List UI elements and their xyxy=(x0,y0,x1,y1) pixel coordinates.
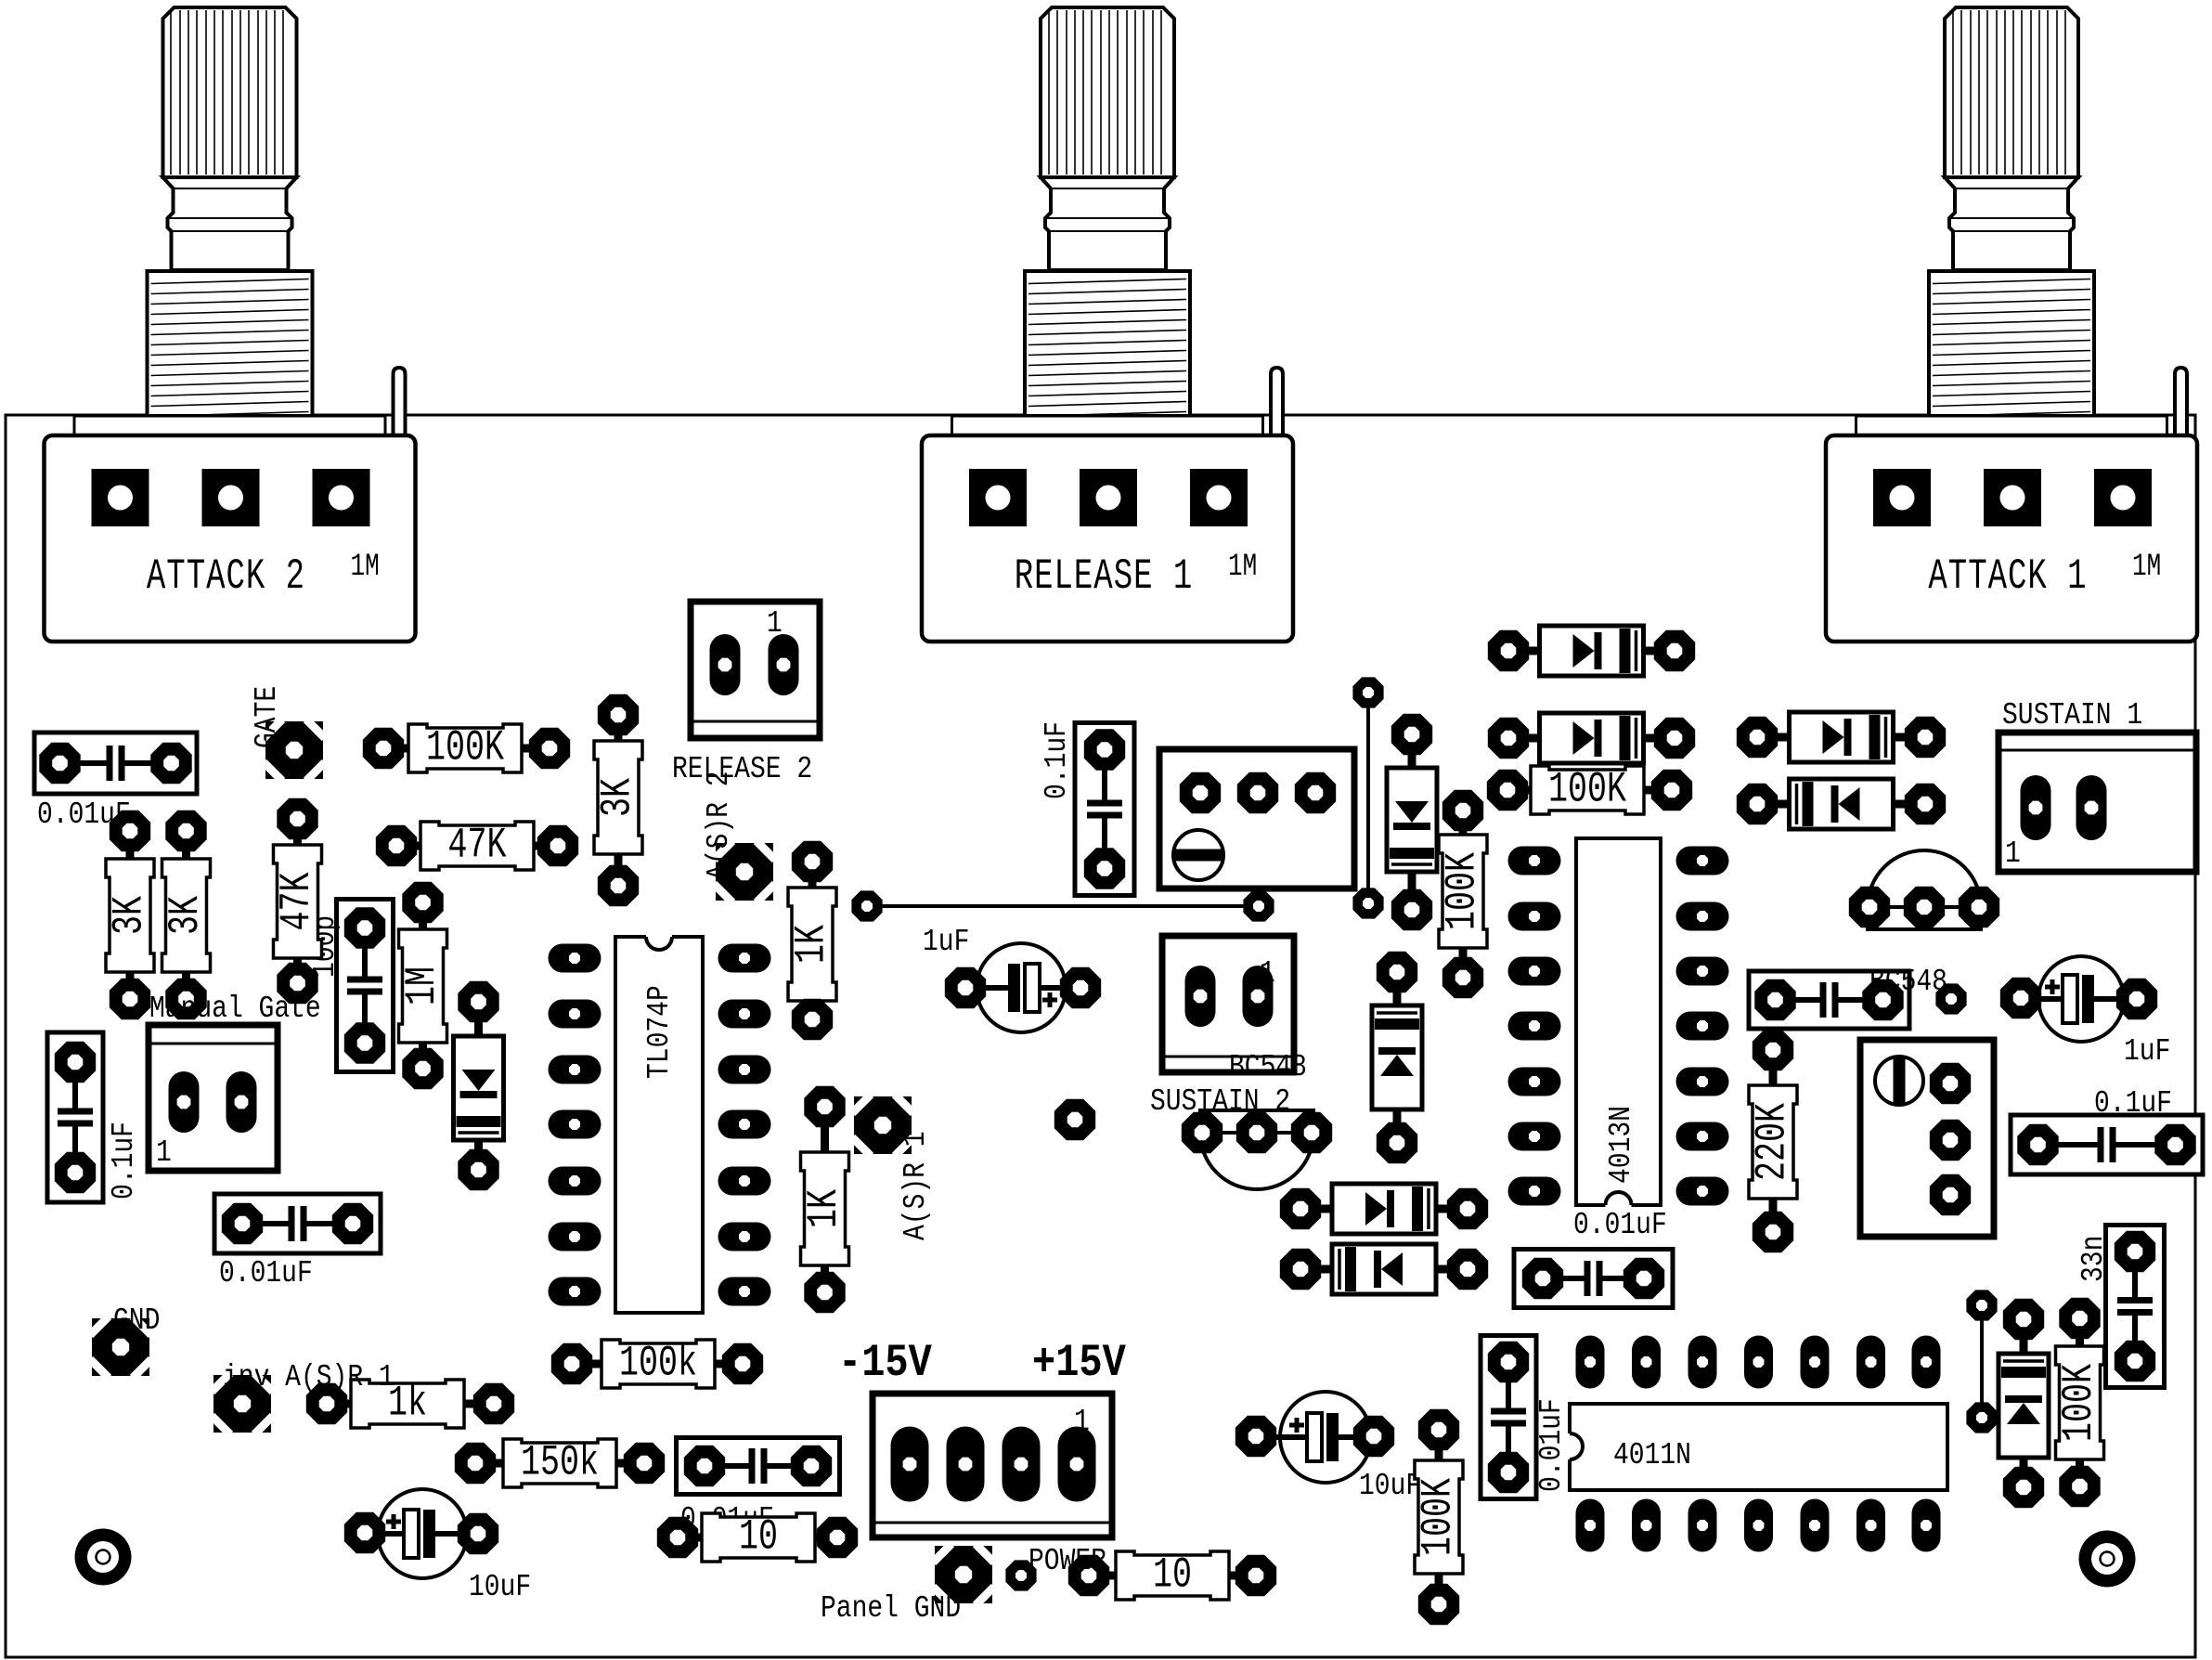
svg-text:1: 1 xyxy=(2005,836,2021,872)
resistor R12 (3K) xyxy=(594,694,642,906)
connector Manual Gate xyxy=(149,1025,278,1171)
diode D6 xyxy=(1301,1244,1467,1294)
svg-text:BC548: BC548 xyxy=(1229,1050,1307,1085)
svg-text:1uF: 1uF xyxy=(923,925,969,960)
svg-text:3K: 3K xyxy=(106,896,154,935)
trimmer potentiometer T1 xyxy=(1159,749,1354,888)
resistor R11 (47K) xyxy=(274,798,322,1004)
svg-text:1: 1 xyxy=(156,1135,172,1171)
diode D5 xyxy=(1301,1184,1467,1234)
resistor R14 (1K) xyxy=(788,841,836,1040)
connector SUSTAIN 2 xyxy=(1162,936,1294,1072)
svg-text:inv A(S)R 1: inv A(S)R 1 xyxy=(223,1360,395,1395)
diode D7 xyxy=(454,1005,504,1171)
svg-text:ATTACK 2: ATTACK 2 xyxy=(147,552,305,601)
svg-text:0.01uF: 0.01uF xyxy=(1534,1398,1570,1492)
capacitor C8 100p xyxy=(337,900,394,1072)
wire W2 xyxy=(1366,693,1370,903)
resistor R3 (100k) xyxy=(551,1340,763,1388)
svg-text:ATTACK 1: ATTACK 1 xyxy=(1928,552,2087,601)
svg-text:220K: 220K xyxy=(1749,1103,1797,1181)
svg-text:100K: 100K xyxy=(1415,1478,1463,1556)
resistor R13 (1M) xyxy=(399,882,447,1089)
capacitor C12 1uF (electrolytic) xyxy=(965,943,1077,1032)
svg-text:1M: 1M xyxy=(2132,550,2161,585)
resistor R10 (3K) xyxy=(162,811,211,1019)
op-amp U1 TL074P xyxy=(549,934,771,1313)
resistor R19 (100K) xyxy=(2056,1298,2104,1507)
svg-text:GATE: GATE xyxy=(250,686,285,748)
potentiometer ATTACK 1 (1M) xyxy=(1826,7,2197,642)
svg-text:TL074P: TL074P xyxy=(642,985,678,1079)
svg-text:100K: 100K xyxy=(426,724,504,772)
capacitor C4 0.01uF xyxy=(1514,1250,1673,1308)
diode D8 xyxy=(1387,737,1437,902)
resistor R7 (10) xyxy=(1068,1551,1276,1600)
transistor Q2 (BC548) xyxy=(1200,1110,1313,1189)
svg-text:100K: 100K xyxy=(1439,852,1487,930)
capacitor C9 0.1uF xyxy=(1075,723,1134,896)
svg-text:RELEASE 1: RELEASE 1 xyxy=(1015,552,1194,601)
svg-text:Panel GND: Panel GND xyxy=(821,1591,961,1627)
svg-text:0.1uF: 0.1uF xyxy=(2094,1086,2172,1122)
resistor R1 (100K) xyxy=(363,724,570,772)
capacitor C3 0.01uF xyxy=(677,1438,840,1495)
svg-text:0.01uF: 0.01uF xyxy=(219,1256,313,1291)
pad A(S)R 2 xyxy=(716,843,773,901)
capacitor C14 10uF (electrolytic) xyxy=(367,1489,478,1578)
potentiometer ATTACK 2 (1M) xyxy=(45,7,416,642)
svg-text:1uF: 1uF xyxy=(2124,1034,2170,1070)
IC U3 4011N xyxy=(1567,1336,1947,1552)
svg-text:0.1uF: 0.1uF xyxy=(1040,721,1075,799)
resistor R18 (100K) xyxy=(1415,1409,1463,1625)
wire W3 xyxy=(1980,1305,1984,1418)
svg-text:1M: 1M xyxy=(399,966,447,1005)
diode D3 xyxy=(1759,712,1924,762)
resistor R16 (100K) xyxy=(1439,790,1487,998)
resistor R5 (150k) xyxy=(455,1439,665,1487)
pad inv A(S)R 1 xyxy=(213,1375,271,1433)
svg-text:1M: 1M xyxy=(1228,550,1257,585)
mounting hole right xyxy=(2079,1531,2136,1588)
svg-text:RELEASE 2: RELEASE 2 xyxy=(672,752,812,787)
pad (via near SUSTAIN 2) xyxy=(1054,1099,1095,1140)
capacitor C7 0.1uF xyxy=(47,1032,103,1202)
svg-text:1M: 1M xyxy=(351,550,380,585)
diode D9 xyxy=(1372,975,1422,1140)
svg-text:1K: 1K xyxy=(801,1189,849,1228)
svg-text:+15V: +15V xyxy=(1032,1337,1126,1389)
connector POWER xyxy=(873,1394,1112,1537)
diode D10 xyxy=(1999,1323,2049,1488)
svg-text:33n: 33n xyxy=(2076,1236,2112,1282)
svg-text:47K: 47K xyxy=(448,822,507,870)
trimmer potentiometer T2 xyxy=(1860,1040,1994,1237)
mounting hole left xyxy=(75,1529,132,1586)
svg-text:1: 1 xyxy=(767,606,783,642)
capacitor C6 0.1uF xyxy=(2011,1115,2203,1174)
svg-text:GND: GND xyxy=(113,1303,160,1339)
svg-text:BC548: BC548 xyxy=(1869,965,1947,1000)
svg-text:SUSTAIN 1: SUSTAIN 1 xyxy=(2002,698,2142,733)
svg-text:100k: 100k xyxy=(619,1340,697,1388)
svg-text:150k: 150k xyxy=(521,1439,599,1487)
svg-text:3K: 3K xyxy=(594,778,642,817)
pad A(S)R 1 xyxy=(854,1096,912,1154)
svg-text:4011N: 4011N xyxy=(1613,1438,1691,1473)
connector RELEASE 2 xyxy=(691,602,820,738)
svg-text:0.01uF: 0.01uF xyxy=(1573,1208,1667,1243)
svg-text:A(S)R 1: A(S)R 1 xyxy=(899,1131,934,1240)
svg-text:10: 10 xyxy=(1153,1551,1192,1600)
capacitor C5 0.1uF xyxy=(1749,971,1909,1029)
capacitor C15 10uF (electrolytic) xyxy=(1269,1392,1382,1483)
svg-text:0.1uF: 0.1uF xyxy=(107,1122,142,1200)
svg-text:10: 10 xyxy=(739,1513,778,1562)
resistor R4 (1k) xyxy=(306,1380,514,1428)
svg-text:1K: 1K xyxy=(788,925,836,964)
resistor R17 (220K) xyxy=(1749,1030,1797,1252)
diode D2 xyxy=(1509,713,1675,763)
transistor Q1 (BC548) xyxy=(1868,850,1981,929)
capacitor C2 0.01uF xyxy=(214,1194,381,1253)
svg-text:3K: 3K xyxy=(162,896,211,935)
pad GATE xyxy=(265,721,323,779)
resistor R15 (1K) xyxy=(801,1086,849,1313)
svg-text:10uF: 10uF xyxy=(469,1570,531,1605)
diode D4 xyxy=(1759,779,1924,829)
pad GND xyxy=(92,1318,149,1376)
resistor R2 (47K) xyxy=(376,822,578,870)
svg-text:Manual Gate: Manual Gate xyxy=(149,992,321,1027)
capacitor C13 1uF (electrolytic) xyxy=(2027,956,2135,1042)
pad (via near Panel GND) xyxy=(1005,1560,1036,1590)
svg-text:A(S)R 2: A(S)R 2 xyxy=(702,771,737,880)
IC U2 4013N xyxy=(1508,838,1729,1208)
svg-text:47K: 47K xyxy=(274,872,322,930)
svg-text:4013N: 4013N xyxy=(1604,1106,1639,1184)
svg-text:POWER: POWER xyxy=(1028,1544,1106,1579)
capacitor C10 0.01uF xyxy=(1481,1336,1536,1499)
diode D1 xyxy=(1509,626,1675,676)
resistor R8 (100K) xyxy=(1487,766,1692,814)
svg-text:1: 1 xyxy=(1074,1405,1090,1440)
svg-text:1: 1 xyxy=(1260,956,1275,992)
capacitor C1 0.01uF xyxy=(34,733,197,794)
svg-text:100K: 100K xyxy=(1548,766,1626,814)
capacitor C11 33n xyxy=(2106,1226,2165,1388)
svg-text:100K: 100K xyxy=(2056,1364,2104,1442)
board outline xyxy=(6,415,2195,1657)
connector SUSTAIN 1 xyxy=(1999,733,2196,872)
pad (via near C5) xyxy=(1935,983,1966,1014)
pad Panel GND xyxy=(935,1546,992,1603)
wire W1 xyxy=(867,904,1259,908)
resistor R9 (3K) xyxy=(106,811,154,1019)
svg-text:-15V: -15V xyxy=(838,1337,932,1389)
svg-text:10uF: 10uF xyxy=(1359,1469,1421,1504)
potentiometer RELEASE 1 (1M) xyxy=(922,7,1293,642)
resistor R6 (10) xyxy=(657,1513,858,1562)
